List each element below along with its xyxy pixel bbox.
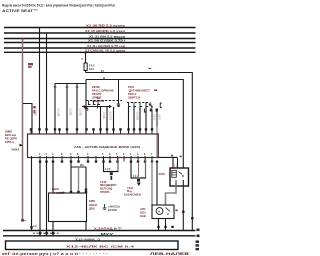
wire right drop A: [85, 80, 87, 135]
compressor motor circle: [156, 208, 163, 215]
legend text block switch: [128, 85, 150, 100]
wire colour code labels vertical: [34, 108, 139, 121]
compressor out wires: [158, 219, 160, 231]
bus wire 30: [4, 27, 196, 29]
wire drop d4: [128, 107, 130, 135]
bottom pin connector blobs: [39, 161, 158, 163]
svg-text:т.МАССЫ: т.МАССЫ: [108, 205, 120, 209]
label 15 red: [28, 63, 33, 65]
inline connector: [85, 189, 87, 191]
hook 7: [146, 103, 148, 107]
dashed connector row left: [86, 100, 122, 102]
legend text block fusebox: [92, 85, 114, 103]
wire link arrow: [82, 106, 109, 108]
svg-text:ВАЛ СИД: ВАЛ СИД: [100, 187, 112, 191]
seat module label: [52, 187, 64, 195]
branch from maroon wire: [23, 104, 32, 135]
svg-text:0.5 BL: 0.5 BL: [102, 112, 105, 120]
svg-text:А66 - АКТИВ.СИДЕНЬЕ БЛОК (А66): А66 - АКТИВ.СИДЕНЬЕ БЛОК (А66): [74, 145, 140, 149]
svg-text:НАВ: НАВ: [140, 214, 146, 218]
bottom pin numbers: [39, 153, 153, 156]
wire fuse feed: [85, 52, 87, 63]
connector marks cluster: [151, 105, 154, 108]
svg-text:0.5 GE: 0.5 GE: [79, 108, 82, 116]
valve unit Y342 box: [103, 158, 105, 172]
gnd triangle: [149, 104, 152, 107]
pin tick on lower feed: [103, 77, 105, 80]
seat module box: [49, 193, 87, 222]
wire to bottom bus 1: [39, 162, 41, 236]
ground label mid: [108, 205, 120, 213]
svg-text:X1 D+ BU/GN 0.75 ген: X1 D+ BU/GN 0.75 ген: [87, 44, 125, 48]
svg-text:10A: 10A: [89, 67, 94, 71]
svg-text:ACTIVE SEAT™: ACTIVE SEAT™: [2, 8, 38, 13]
svg-text:ДОБ: ДОБ: [89, 207, 95, 211]
svg-text:0.5 G: 0.5 G: [174, 182, 177, 188]
ground symbol: [104, 204, 106, 208]
wire jog pin8: [71, 162, 86, 168]
jog from A66 corner to F240: [158, 156, 177, 158]
fuse F4.5: [84, 63, 87, 71]
wires from A66 right pins: [151, 162, 153, 206]
seat box bottom wire 2: [85, 222, 87, 231]
svg-text:ЕМО: ЕМО: [89, 199, 95, 203]
compressor connector ticks: [157, 226, 159, 228]
svg-text:0.5 RT: 0.5 RT: [69, 108, 72, 116]
ref arrow: [20, 144, 24, 147]
svg-text:. . . . . . . . .: . . . . . . . . .: [79, 251, 108, 255]
wire pin8 to seat box: [70, 167, 72, 193]
svg-text:ЛЕВ-НАЛЕВ: ЛЕВ-НАЛЕВ: [150, 252, 190, 256]
top pin row: [31, 130, 152, 135]
right edge stubs: [197, 229, 200, 232]
svg-text:ЧзВАЛ: ЧзВАЛ: [11, 149, 20, 152]
junction fuse on CAN bus: [84, 52, 86, 54]
tiny label by compressor: [176, 210, 178, 212]
svg-text:РИО-З: РИО-З: [5, 140, 14, 144]
wire comb tooth 1: [54, 84, 56, 135]
bus wire CAN: [4, 51, 196, 53]
svg-text:кčГ üč-регзоп руч | ч? а о о п: кčГ üč-регзоп руч | ч? а о о п: [2, 252, 78, 256]
svg-text:X1 30 RD 2.5 кузов: X1 30 RD 2.5 кузов: [86, 23, 125, 27]
wire to L2: [85, 191, 87, 193]
svg-text:Х12-4БЛК ВС /СМ 5.4: Х12-4БЛК ВС /СМ 5.4: [66, 245, 135, 249]
wire comb bar: [55, 83, 86, 85]
top pin connector blobs: [30, 128, 153, 130]
wire comb tooth 2: [66, 84, 68, 135]
label arrow: [63, 191, 66, 194]
svg-text:ПВ42: ПВ42: [52, 187, 59, 191]
box top pin connectors: [70, 191, 72, 193]
wire maroon 15-feed: [22, 39, 24, 220]
svg-text:МЕХ(ДВ)РЕГ: МЕХ(ДВ)РЕГ: [100, 183, 117, 187]
bottom pin row ticks: [32, 156, 153, 162]
svg-text:1 2: 1 2: [174, 165, 178, 168]
hook 5: [134, 103, 136, 107]
label EMO right of box: [89, 199, 97, 211]
wire K30 drop: [39, 28, 41, 135]
svg-text:а.б: а.б: [33, 225, 37, 228]
svg-text:ВОЗ: ВОЗ: [140, 210, 146, 214]
valve unit Y341 box: [130, 158, 132, 178]
wire drop d2: [106, 107, 108, 134]
black wire below F240: [182, 180, 184, 231]
bottom bus wire 2: [3, 235, 196, 237]
bus wire 31: [4, 38, 196, 40]
svg-text:0.5 R: 0.5 R: [157, 114, 160, 120]
Y342 label: [100, 180, 117, 194]
stub wire into F240: [177, 157, 179, 168]
svg-text:МА: МА: [80, 164, 84, 167]
svg-text:БАЗА(СМАЗ): БАЗА(СМАЗ): [124, 193, 141, 197]
wire drop d6: [139, 107, 141, 135]
svg-text:X1 CAN H/L YE 0.5 шина: X1 CAN H/L YE 0.5 шина: [85, 48, 125, 52]
compressor box: [152, 205, 174, 219]
svg-text:X1 58 GY/BK 0.75 і: X1 58 GY/BK 0.75 і: [88, 39, 125, 43]
dashed connector row right: [127, 102, 151, 104]
inline connector on 192: [191, 217, 193, 219]
svg-text:ОПОРА: ОПОРА: [100, 190, 110, 194]
wire to bottom bus 2: [46, 162, 48, 236]
svg-text:76-СПЕР: 76-СПЕР: [52, 191, 64, 195]
control unit A66 box: [28, 134, 159, 158]
hook 2: [94, 101, 96, 105]
wire drop d7: [145, 107, 147, 135]
svg-text:X1 15 BK/RD 1.5 узел: X1 15 BK/RD 1.5 узел: [85, 29, 125, 33]
bottom bus wire 1: [3, 230, 196, 232]
wire fuse out: [85, 71, 87, 73]
gray wire from F240: [166, 180, 177, 205]
wire feed right upper: [86, 73, 193, 231]
F240 internals: [172, 170, 177, 177]
Y342 symbol: [110, 172, 113, 175]
bus wire D+: [4, 47, 196, 49]
hook 4: [129, 103, 131, 107]
bus wire 58: [4, 42, 196, 44]
wire gray drop: [156, 126, 158, 157]
svg-text:Р240: Р240: [159, 172, 166, 176]
wire drop d5: [133, 107, 135, 135]
comb tooth breaks: [54, 86, 79, 88]
footer box: [6, 241, 179, 250]
seat box bottom wire 1: [52, 222, 54, 236]
svg-text:Y341: Y341: [127, 186, 134, 190]
svg-text:Y342: Y342: [100, 180, 107, 184]
left margin ref text: [5, 130, 20, 152]
bottom connector ticks row: [39, 232, 41, 234]
svg-text:ЗВИТСН: ЗВИТСН: [128, 95, 140, 99]
wire drop to connector: [85, 167, 87, 189]
junction maroon on bus 31: [21, 38, 23, 40]
inline connector on 183: [182, 211, 184, 213]
maroon wire end connector: [21, 219, 24, 222]
svg-text:КУЗОВ: КУЗОВ: [108, 208, 117, 212]
hook 1: [89, 101, 91, 105]
wire to seat box L1: [52, 162, 54, 194]
svg-text:0.5 SW: 0.5 SW: [57, 108, 60, 117]
Y341 label: [124, 186, 141, 197]
wire drop d1: [100, 107, 102, 134]
pressure switch F240 box: [170, 168, 189, 186]
svg-text:1 2 3: 1 2 3: [105, 168, 111, 171]
svg-text:НОСИ: НОСИ: [89, 203, 97, 207]
inline connector on wire 86: [83, 105, 85, 108]
wire K15 drop: [46, 33, 48, 134]
arrowhead: [109, 105, 112, 108]
svg-text:0.5 GN: 0.5 GN: [109, 112, 112, 120]
tiny red mark right: [154, 90, 157, 91]
bus wire 15: [4, 32, 196, 34]
link ticks: [97, 105, 99, 109]
svg-text:Модели шасси 54.02/54.04, 54.2: Модели шасси 54.02/54.04, 54.22 - Блок у…: [2, 3, 115, 8]
wire drop d3: [113, 107, 115, 134]
wire comb tooth 3: [76, 84, 78, 135]
wire feed right lower: [86, 80, 183, 169]
wire pin1 to bottom bus: [31, 158, 33, 231]
svg-text:0.5 WS: 0.5 WS: [136, 112, 139, 121]
svg-text:АРС: АРС: [140, 207, 146, 211]
drop wire x118: [118, 80, 120, 105]
red text ARS: [140, 207, 146, 218]
wires to pins 152/157: [151, 110, 153, 134]
tiny maroon mark right margin: [149, 68, 152, 69]
hook 3: [98, 101, 100, 105]
svg-text:0.5 S: 0.5 S: [152, 114, 155, 120]
right margin page stack: [196, 241, 200, 251]
wire gray drop L2: [78, 167, 80, 192]
dashed bridge: [33, 232, 60, 234]
hook 6: [140, 103, 142, 107]
Y341 symbol: [137, 179, 140, 182]
svg-text:М-д: М-д: [127, 189, 132, 193]
wire code mark: [33, 106, 35, 108]
Y341 middle wire: [138, 162, 140, 177]
compressor marks: [166, 208, 171, 212]
